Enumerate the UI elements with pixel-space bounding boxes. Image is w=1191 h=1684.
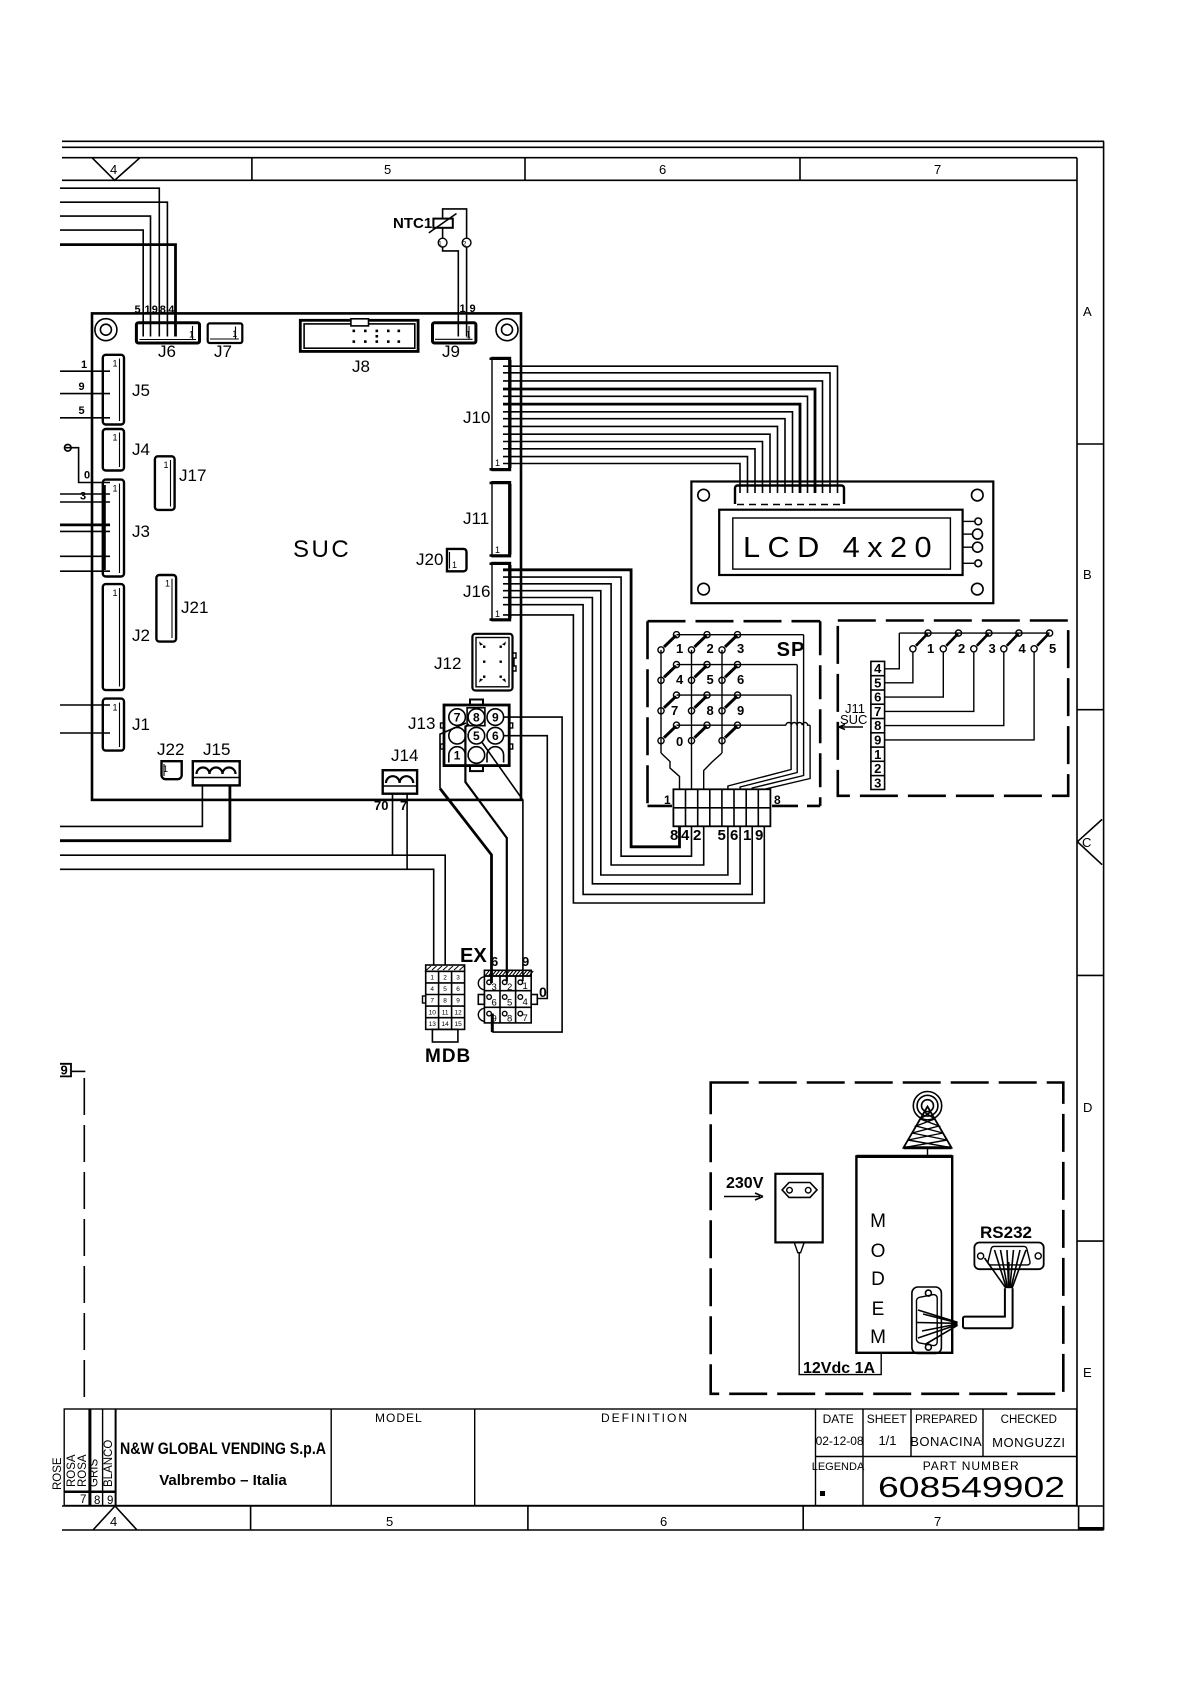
svg-text:EX: EX: [460, 945, 487, 967]
wire J3 d: [60, 570, 110, 572]
wires DB9 fan to cable: [917, 1310, 958, 1345]
svg-text:2: 2: [707, 641, 714, 656]
svg-text:6: 6: [491, 954, 498, 969]
svg-text:DATE: DATE: [823, 1412, 854, 1426]
wire J13 pin7 to EX pin3 (thick): [440, 789, 492, 984]
svg-text:5: 5: [718, 827, 726, 844]
wire SP col1 bus: [660, 650, 662, 753]
wire J10 to LCD 11: [503, 457, 748, 493]
svg-text:J22: J22: [157, 740, 184, 759]
svg-text:5: 5: [386, 1514, 393, 1529]
svg-text:PART NUMBER: PART NUMBER: [923, 1459, 1020, 1473]
svg-text:J2: J2: [132, 626, 150, 645]
svg-text:4: 4: [110, 162, 117, 177]
svg-text:5: 5: [79, 405, 85, 417]
wire J13 pin9 to EX pin9: [492, 717, 562, 1032]
svg-text:1: 1: [460, 303, 466, 315]
switch blades SW1-SW5: [916, 634, 1049, 646]
connector J11 pin strip: [871, 661, 885, 789]
wires into J5: [60, 371, 110, 418]
svg-text:8: 8: [874, 718, 881, 733]
svg-text:J11: J11: [463, 509, 489, 528]
svg-text:BONACINA: BONACINA: [910, 1434, 982, 1449]
svg-text:3: 3: [492, 982, 497, 993]
svg-text:6: 6: [492, 998, 497, 1009]
svg-text:1: 1: [112, 484, 117, 494]
svg-text:13: 13: [429, 1021, 437, 1028]
svg-text:4: 4: [523, 997, 528, 1008]
wire 5: [60, 230, 143, 336]
svg-text:SP: SP: [777, 639, 806, 661]
svg-text:7: 7: [400, 798, 407, 813]
svg-text:J1: J1: [132, 715, 150, 734]
svg-text:J14: J14: [391, 746, 418, 765]
svg-text:9: 9: [522, 954, 529, 969]
svg-text:7: 7: [80, 1494, 86, 1506]
svg-text:BLANCO: BLANCO: [103, 1440, 115, 1487]
svg-text:1: 1: [112, 703, 117, 713]
svg-text:9: 9: [79, 381, 85, 393]
svg-text:J12: J12: [434, 654, 461, 673]
svg-text:D: D: [871, 1269, 885, 1290]
connector J13: [441, 700, 513, 772]
svg-text:1: 1: [874, 747, 881, 762]
svg-text:5: 5: [1049, 641, 1056, 656]
wire EX pin9 stub (thick): [491, 1014, 494, 1033]
svg-text:5: 5: [443, 986, 447, 993]
connector DB9 on modem: [912, 1287, 942, 1354]
wire J10 to LCD 4: [503, 396, 808, 493]
svg-text:8: 8: [507, 1014, 512, 1025]
wire SP row2 to conn pin6: [740, 665, 797, 790]
wire J3 c: [60, 555, 110, 557]
wire net to MDB col2: [60, 855, 445, 965]
svg-text:1/1: 1/1: [878, 1433, 896, 1448]
svg-text:8: 8: [443, 998, 447, 1005]
svg-text:70: 70: [374, 798, 388, 813]
svg-text:1: 1: [112, 359, 117, 369]
svg-text:9: 9: [737, 703, 744, 718]
wires J14 and MDB nets: [60, 794, 445, 965]
wire node 0 to J3 pin1: [65, 448, 110, 483]
svg-text:1: 1: [81, 359, 87, 371]
selector block J11-SUC dashed enclosure: [838, 621, 1068, 796]
connector J21: [156, 575, 176, 642]
svg-text:230V: 230V: [726, 1175, 764, 1192]
wire J10 to LCD 1: [503, 366, 838, 493]
svg-text:J15: J15: [203, 740, 230, 759]
switch contacts SW1-SW5: [910, 630, 1053, 652]
power supply adapter PS1: [775, 1174, 822, 1253]
svg-text:2: 2: [443, 975, 447, 982]
wires J13 to EX: [440, 717, 562, 1032]
svg-text:9: 9: [61, 1063, 68, 1078]
connector J14: [383, 770, 417, 794]
wire J14 pin 7: [406, 794, 408, 869]
wire J16 pin2 to SP pin4: [503, 577, 692, 856]
svg-text:J9: J9: [442, 342, 460, 361]
svg-text:9: 9: [492, 1014, 497, 1025]
connector J12: [472, 634, 516, 691]
svg-text:8: 8: [670, 827, 678, 844]
LCD top connector: [735, 486, 844, 505]
connector J15: [193, 761, 240, 785]
wire J10 to LCD 5: [503, 412, 793, 493]
svg-text:M: M: [870, 1211, 886, 1232]
wire bus to J11 pin4: [885, 633, 900, 669]
connector J11: [490, 482, 512, 557]
svg-text:02-12-08: 02-12-08: [816, 1434, 864, 1448]
wire antenna stem: [927, 1148, 929, 1157]
node 9 marker: [60, 1064, 85, 1398]
wires into J1: [60, 705, 110, 733]
svg-text:1: 1: [438, 241, 442, 248]
svg-text:CHECKED: CHECKED: [1001, 1414, 1057, 1426]
pin labels 5 1 9 8 4: [135, 304, 176, 316]
svg-text:6: 6: [737, 672, 744, 687]
wires J15 to left edge: [60, 786, 202, 826]
wire J16 pin3 to SP pin2: [503, 584, 704, 865]
LCD 4x20 display module U-LCD: [691, 482, 993, 604]
svg-text:2: 2: [693, 827, 701, 844]
svg-text:LCD 4x20: LCD 4x20: [743, 532, 939, 564]
svg-text:1: 1: [112, 588, 117, 598]
antenna ANT1: [904, 1092, 952, 1157]
wire J16 pin4 to SP pin5: [503, 591, 728, 875]
wire J10 to LCD 6: [503, 419, 785, 493]
svg-text:1: 1: [743, 827, 751, 844]
svg-text:J20: J20: [416, 550, 443, 569]
wire SP row4 bus: [677, 724, 787, 726]
svg-text:3: 3: [874, 775, 881, 790]
svg-text:9: 9: [107, 1495, 113, 1507]
wire 9: [60, 188, 159, 336]
frame zone labels: [110, 162, 1092, 1529]
svg-text:1: 1: [112, 433, 117, 443]
svg-text:MODEL: MODEL: [375, 1411, 423, 1425]
svg-text:J10: J10: [463, 408, 490, 427]
title block texts: [52, 1411, 1065, 1507]
wire SP row2 bus: [677, 664, 798, 666]
wire J10 to LCD 2: [503, 373, 830, 493]
svg-text:1: 1: [163, 460, 168, 470]
svg-text:A: A: [1083, 304, 1092, 319]
wire J15 pin to left edge: [60, 786, 202, 826]
wire SP col2 bus: [691, 650, 693, 789]
svg-text:D: D: [1083, 1100, 1092, 1115]
wire 8: [60, 202, 167, 336]
wire J13 pin7 upper: [440, 723, 466, 789]
svg-text:1: 1: [454, 748, 461, 762]
svg-text:2: 2: [507, 982, 512, 993]
svg-text:LEGENDA: LEGENDA: [812, 1461, 865, 1473]
wire NTC1-2 to J9 pin9: [466, 247, 468, 337]
board SUC outline: [92, 313, 521, 800]
svg-text:J3: J3: [132, 522, 150, 541]
svg-text:0: 0: [539, 984, 547, 1000]
svg-text:4: 4: [676, 672, 684, 687]
wire SP row3 bus: [677, 694, 792, 696]
connector J20: [447, 549, 467, 571]
pin labels 1 9 5 at J5: [79, 359, 88, 417]
wire J16 pin7 to SP pin8 (thick): [503, 570, 680, 847]
svg-text:C: C: [1082, 835, 1091, 850]
svg-text:3: 3: [737, 641, 744, 656]
svg-text:J5: J5: [132, 381, 150, 400]
svg-text:1: 1: [189, 330, 194, 340]
wire J11 switch top bus: [899, 632, 1049, 634]
wire J3 b: [60, 530, 110, 532]
wires into J3: [60, 494, 110, 571]
wire SP row1 bus: [677, 634, 804, 636]
wire J10 to LCD 10: [503, 449, 755, 493]
svg-text:12Vdc 1A: 12Vdc 1A: [803, 1360, 875, 1377]
svg-text:9: 9: [470, 303, 476, 315]
wire J14 pin 70: [392, 794, 394, 855]
wire 1: [60, 216, 151, 336]
mounting hole top-left: [95, 319, 117, 341]
svg-text:PREPARED: PREPARED: [915, 1414, 977, 1426]
svg-text:J16: J16: [463, 582, 490, 601]
svg-text:9: 9: [874, 733, 881, 748]
svg-text:5: 5: [874, 675, 881, 690]
wires into J6: [60, 188, 167, 336]
svg-text:5: 5: [135, 304, 141, 316]
svg-text:7: 7: [454, 711, 461, 725]
svg-text:1: 1: [676, 641, 683, 656]
svg-text:J21: J21: [181, 598, 208, 617]
wire NTC1-1 to J9 pin1: [443, 247, 459, 337]
wire J1 b: [60, 732, 110, 734]
wire 4 thick: [60, 245, 176, 337]
svg-text:5: 5: [384, 162, 391, 177]
wire J10 to LCD 7: [503, 426, 778, 493]
wire NTC1 terminal1: [442, 228, 444, 238]
connector J8: [300, 319, 418, 352]
svg-text:J7: J7: [214, 342, 232, 361]
svg-text:7: 7: [523, 1013, 528, 1024]
svg-text:MONGUZZI: MONGUZZI: [992, 1435, 1065, 1450]
keypad SP dashed enclosure: [648, 621, 821, 806]
mounting hole top-right: [496, 319, 518, 341]
wire SW3 to J11 pin7: [885, 652, 974, 711]
svg-text:ROSA: ROSA: [77, 1454, 89, 1487]
wire J10 to LCD 3: [503, 381, 823, 493]
connector J1: [103, 699, 124, 751]
wire SP col3 bus: [721, 650, 723, 753]
svg-text:5: 5: [507, 998, 512, 1009]
svg-text:3: 3: [80, 491, 86, 503]
wire J16 pin5 to SP pin6: [503, 598, 740, 884]
wire NTC1 terminal2: [443, 209, 467, 238]
wire J16 pin1 to SP pin9: [503, 615, 764, 903]
svg-text:6: 6: [660, 1514, 667, 1529]
wire J3 pin3: [60, 501, 110, 503]
svg-text:8: 8: [160, 304, 166, 316]
svg-text:1: 1: [145, 304, 151, 316]
wires J10 to LCD: [503, 366, 838, 493]
wire hop on SP row4: [786, 723, 810, 726]
svg-text:MDB: MDB: [425, 1046, 471, 1067]
svg-text:14: 14: [441, 1021, 449, 1028]
svg-text:8: 8: [473, 711, 480, 725]
wire J10 to LCD thick b: [503, 404, 800, 493]
svg-text:4: 4: [874, 661, 882, 676]
wire SW4 to J11 pin8: [885, 652, 1004, 726]
svg-text:9: 9: [456, 998, 460, 1005]
connector SP 8-pin: [673, 789, 770, 826]
wire J13 pin6 to EX pin0: [504, 736, 548, 999]
connector J22: [162, 761, 182, 779]
svg-text:7: 7: [934, 1514, 941, 1529]
thermistor NTC1: [429, 209, 471, 337]
svg-text:6: 6: [492, 729, 499, 743]
svg-text:1: 1: [232, 329, 237, 339]
pin labels 1 9 at J9: [460, 303, 476, 315]
wire J10 to LCD thick a: [503, 389, 815, 493]
svg-text:10: 10: [429, 1009, 437, 1016]
connector J3: [103, 480, 124, 577]
drawing frame border: [62, 141, 1104, 1530]
svg-text:15: 15: [454, 1021, 462, 1028]
wire net to MDB col1: [60, 869, 434, 965]
svg-text:6: 6: [456, 986, 460, 993]
svg-text:7: 7: [430, 998, 434, 1005]
wire J13 pin5 to EX pin1: [481, 742, 523, 982]
svg-text:2: 2: [958, 641, 965, 656]
wire with connector stub into J3 pin1: [65, 444, 111, 482]
svg-text:Valbrembo – Italia: Valbrembo – Italia: [159, 1472, 287, 1489]
svg-text:9: 9: [152, 304, 158, 316]
svg-text:5: 5: [707, 672, 714, 687]
connector J6: [136, 323, 199, 343]
svg-text:9: 9: [492, 711, 499, 725]
connector J4: [103, 429, 124, 471]
wires RS232 fan to cable: [985, 1250, 1027, 1288]
wire SW5 to J11 pin9: [885, 652, 1035, 740]
SUC BOARD: [92, 313, 521, 800]
wire 12Vdc supply to MODEM: [799, 1253, 881, 1375]
svg-text:12: 12: [454, 1009, 462, 1016]
wire J5 pin1: [60, 370, 110, 372]
connector J10: [490, 358, 512, 471]
svg-text:8: 8: [707, 703, 714, 718]
svg-text:B: B: [1083, 567, 1092, 582]
dashed boundary wire from node 9: [83, 1078, 85, 1398]
svg-text:8: 8: [774, 793, 781, 807]
svg-text:7: 7: [671, 703, 678, 718]
svg-text:E: E: [1083, 1365, 1092, 1380]
svg-text:GRIS: GRIS: [89, 1459, 101, 1487]
svg-text:4: 4: [430, 986, 434, 993]
connector J5: [103, 355, 124, 425]
modem assembly dashed enclosure: [711, 1083, 1064, 1394]
svg-text:5: 5: [473, 729, 480, 743]
wire J5 pin5: [60, 417, 110, 419]
keypad SP switch matrix: [661, 635, 810, 790]
svg-text:J13: J13: [408, 714, 435, 733]
svg-text:3: 3: [456, 975, 460, 982]
svg-text:8: 8: [94, 1495, 100, 1507]
wire SP col3 to conn pin3: [704, 753, 722, 789]
svg-text:2: 2: [874, 761, 881, 776]
wire J5 pin9: [60, 393, 110, 395]
connector EX 3x3: [478, 970, 537, 1023]
svg-text:1: 1: [495, 458, 500, 468]
wire J16 pin6 to SP pin1: [503, 605, 752, 895]
svg-text:RS232: RS232: [980, 1223, 1032, 1242]
pin labels 8 4 2 5 6 1 9 under SP connector: [670, 827, 763, 844]
switches SW1-SW5 wiring: [885, 633, 1050, 740]
svg-text:1: 1: [664, 793, 671, 807]
modem unit: [856, 1156, 952, 1352]
svg-text:11: 11: [442, 1009, 449, 1016]
svg-text:SHEET: SHEET: [867, 1412, 908, 1426]
connector J9: [433, 323, 476, 343]
svg-text:M: M: [870, 1327, 886, 1348]
connector J2: [103, 584, 124, 690]
svg-text:3: 3: [989, 641, 996, 656]
svg-text:2: 2: [462, 241, 466, 248]
wire SP row1 to conn pin7: [752, 635, 803, 790]
svg-text:1: 1: [165, 579, 170, 589]
svg-text:J8: J8: [352, 357, 370, 376]
wire J1 a: [60, 704, 110, 706]
connector MDB 3x5: [423, 965, 465, 1042]
svg-text:SUC: SUC: [293, 536, 351, 563]
svg-text:J4: J4: [132, 440, 150, 459]
svg-text:1: 1: [452, 560, 457, 570]
title block: [64, 1409, 1076, 1506]
svg-text:4: 4: [1019, 641, 1027, 656]
wires J16 to SP connector: [503, 577, 764, 903]
svg-text:6: 6: [730, 827, 738, 844]
svg-text:NTC1: NTC1: [393, 215, 432, 232]
svg-text:ROSE: ROSE: [52, 1457, 64, 1490]
svg-text:1: 1: [430, 975, 434, 982]
wire J10 to LCD 12: [503, 464, 740, 494]
wire J10 to LCD 9: [503, 442, 763, 494]
svg-text:4: 4: [681, 827, 690, 844]
svg-text:1: 1: [163, 764, 168, 774]
node 9 bracket: [60, 1064, 71, 1077]
svg-text:1: 1: [927, 641, 934, 656]
svg-text:4: 4: [168, 304, 175, 316]
pin labels 70 7 at J14: [374, 798, 407, 813]
svg-text:1: 1: [495, 609, 500, 619]
svg-text:J6: J6: [158, 342, 176, 361]
SP switch circles & blades: [658, 632, 741, 744]
wire SP row4 to conn pin8: [764, 725, 810, 789]
svg-text:4: 4: [110, 1514, 117, 1529]
wire SP row3 to conn pin5: [728, 695, 791, 789]
svg-text:7: 7: [874, 704, 881, 719]
node open terminal: [65, 444, 72, 451]
svg-text:N&W GLOBAL VENDING S.p.A: N&W GLOBAL VENDING S.p.A: [120, 1439, 326, 1458]
serial cable elbow: [963, 1288, 1013, 1328]
svg-text:7: 7: [934, 162, 941, 177]
wire SW2 to J11 pin6: [885, 652, 944, 697]
connector J16: [490, 563, 512, 621]
svg-text:6: 6: [659, 162, 666, 177]
svg-text:1: 1: [523, 981, 528, 992]
wire J3 a: [60, 493, 110, 495]
wire SW1 to J11 pin5: [885, 652, 913, 683]
wire J13 pin8 to EX pin2: [465, 725, 506, 982]
connector J7: [208, 323, 243, 343]
svg-text:0: 0: [676, 734, 683, 749]
svg-text:J17: J17: [179, 466, 206, 485]
